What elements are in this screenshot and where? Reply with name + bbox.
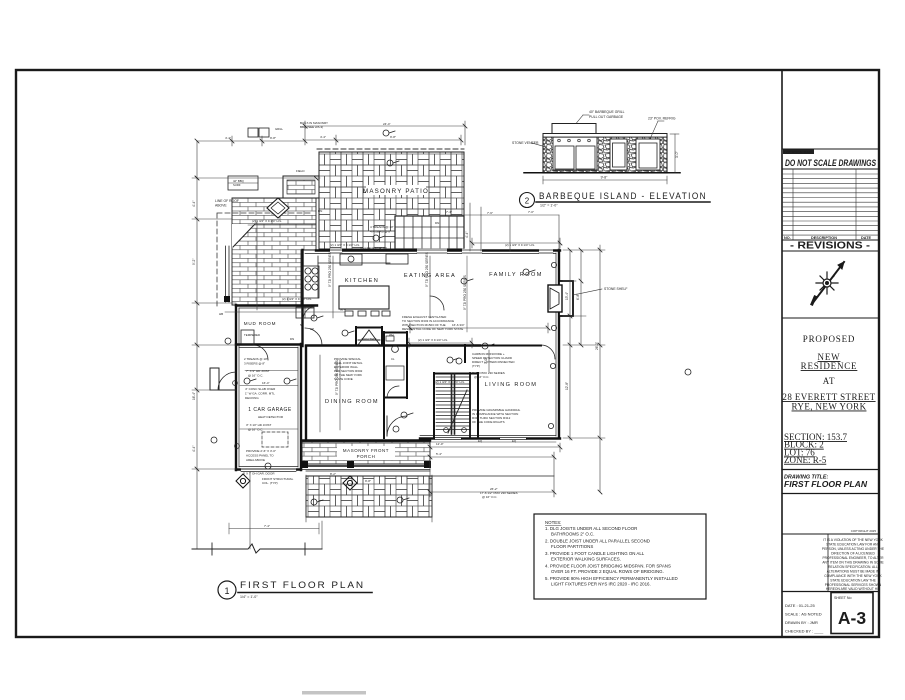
svg-text:1: 1 bbox=[224, 586, 229, 596]
svg-text:FIELD: FIELD bbox=[296, 169, 305, 173]
svg-text:DINING ROOM: DINING ROOM bbox=[325, 399, 379, 405]
svg-text:A-3: A-3 bbox=[838, 608, 866, 628]
svg-text:RESIDENCE: RESIDENCE bbox=[801, 361, 858, 371]
svg-text:7'-0": 7'-0" bbox=[528, 210, 534, 214]
svg-text:13'-4": 13'-4" bbox=[565, 292, 569, 300]
svg-text:12'-8": 12'-8" bbox=[565, 382, 569, 390]
svg-text:STONE SHELF: STONE SHELF bbox=[604, 287, 628, 291]
svg-text:9'-8": 9'-8" bbox=[390, 135, 396, 139]
svg-text:9'-8": 9'-8" bbox=[601, 176, 609, 180]
svg-text:IT IS A VIOLATION OF THE NEW Y: IT IS A VIOLATION OF THE NEW YORK bbox=[823, 538, 883, 542]
svg-text:NO.: NO. bbox=[784, 236, 791, 240]
svg-text:9' X 7' OH GAR. DOOR: 9' X 7' OH GAR. DOOR bbox=[243, 472, 275, 476]
svg-text:FAMILY ROOM: FAMILY ROOM bbox=[489, 272, 543, 278]
svg-text:4'-4": 4'-4" bbox=[192, 201, 196, 207]
svg-text:(2) 1 3/4" X 9 1/4" LVL: (2) 1 3/4" X 9 1/4" LVL bbox=[360, 246, 388, 250]
svg-text:(2) 1 3/4" X 9 1/4" LVL: (2) 1 3/4" X 9 1/4" LVL bbox=[435, 380, 465, 384]
svg-text:CHECKED BY : ____: CHECKED BY : ____ bbox=[785, 629, 824, 634]
svg-text:KITCHEN: KITCHEN bbox=[345, 278, 379, 284]
svg-text:4 TREADS @ 10": 4 TREADS @ 10" bbox=[370, 225, 394, 229]
svg-text:6'-8": 6'-8" bbox=[576, 294, 580, 300]
svg-text:26'-2": 26'-2" bbox=[490, 487, 498, 491]
svg-text:PROVIDE 2'-6" X 3'-0": PROVIDE 2'-6" X 3'-0" bbox=[246, 449, 276, 453]
svg-text:STATE EDUCATION LAW FOR ANY: STATE EDUCATION LAW FOR ANY bbox=[826, 543, 880, 547]
svg-text:1" W GA. CORR. MTL: 1" W GA. CORR. MTL bbox=[245, 392, 275, 396]
svg-text:24'-4": 24'-4" bbox=[383, 122, 391, 126]
svg-text:DIRECTION OF A LICENSED: DIRECTION OF A LICENSED bbox=[831, 552, 875, 556]
svg-text:SCALE : AS NOTED: SCALE : AS NOTED bbox=[785, 612, 822, 617]
svg-text:UP: UP bbox=[310, 327, 314, 331]
svg-text:9'-8": 9'-8" bbox=[270, 136, 276, 140]
svg-text:MASONRY FRONT: MASONRY FRONT bbox=[343, 448, 389, 453]
svg-text:5. PROVIDE 90% HIGH EFFICIENCY: 5. PROVIDE 90% HIGH EFFICIENCY PERMANENT… bbox=[545, 576, 678, 581]
svg-text:NOTES:: NOTES: bbox=[545, 520, 561, 525]
svg-text:9" TJI PRO 230 SERIES: 9" TJI PRO 230 SERIES bbox=[425, 252, 429, 287]
svg-text:AREA ABOVE: AREA ABOVE bbox=[246, 458, 265, 462]
svg-text:DESCRIPTION: DESCRIPTION bbox=[811, 236, 837, 240]
svg-text:PANTRY: PANTRY bbox=[361, 338, 377, 342]
svg-text:9'-2": 9'-2" bbox=[192, 259, 196, 265]
svg-text:1 CAR GARAGE: 1 CAR GARAGE bbox=[248, 407, 292, 413]
svg-text:EATING AREA: EATING AREA bbox=[404, 273, 456, 279]
svg-text:2. DOUBLE JOIST UNDER ALL PARA: 2. DOUBLE JOIST UNDER ALL PARALLEL SECON… bbox=[545, 539, 650, 544]
svg-text:3 RISERS @ 8": 3 RISERS @ 8" bbox=[244, 362, 265, 366]
svg-text:5'-4": 5'-4" bbox=[436, 452, 442, 456]
svg-text:FIRST FLOOR PLAN: FIRST FLOOR PLAN bbox=[784, 479, 868, 489]
svg-text:12'-0": 12'-0" bbox=[436, 442, 444, 446]
svg-text:LIGHT FIXTURES PER NYS IRC 202: LIGHT FIXTURES PER NYS IRC 2020 - IRC 20… bbox=[551, 582, 651, 587]
svg-text:16'-6 3/4": 16'-6 3/4" bbox=[452, 323, 465, 327]
svg-text:OF THE CODE RIGHTS: OF THE CODE RIGHTS bbox=[472, 420, 505, 424]
svg-text:(2) 1 3/4" X 9 1/4" LVL: (2) 1 3/4" X 9 1/4" LVL bbox=[505, 243, 535, 247]
svg-text:PROPOSED: PROPOSED bbox=[803, 334, 855, 344]
svg-text:LIVING ROOM: LIVING ROOM bbox=[485, 382, 538, 388]
svg-text:MUD ROOM: MUD ROOM bbox=[244, 321, 276, 326]
svg-text:28 EVERETT STREET: 28 EVERETT STREET bbox=[782, 392, 875, 402]
svg-text:16'-4": 16'-4" bbox=[192, 392, 196, 400]
svg-text:@ 16" O.C.: @ 16" O.C. bbox=[482, 495, 497, 499]
svg-text:36"R: 36"R bbox=[340, 308, 346, 312]
svg-text:7'-4": 7'-4" bbox=[446, 210, 452, 214]
svg-text:ABOVE: ABOVE bbox=[215, 204, 227, 208]
svg-text:RYE, NEW YORK: RYE, NEW YORK bbox=[792, 402, 867, 412]
svg-text:ZONE: R-5: ZONE: R-5 bbox=[784, 455, 827, 465]
svg-text:HEAT DETECTOR: HEAT DETECTOR bbox=[258, 415, 284, 419]
svg-text:COPYRIGHT 2025: COPYRIGHT 2025 bbox=[851, 529, 877, 533]
svg-text:4" CONC SLAB OVER: 4" CONC SLAB OVER bbox=[245, 387, 276, 391]
svg-text:PROFESSIONAL ENGINEER, TO ALTE: PROFESSIONAL ENGINEER, TO ALTER bbox=[822, 556, 884, 560]
svg-text:COMPLIANCE WITH THE NEW YORK: COMPLIANCE WITH THE NEW YORK bbox=[824, 574, 882, 578]
svg-text:STATE EDUCATION LAW THE: STATE EDUCATION LAW THE bbox=[830, 579, 876, 583]
svg-text:16'-4": 16'-4" bbox=[262, 381, 270, 385]
svg-text:9" TJI PRO 230 SERIES: 9" TJI PRO 230 SERIES bbox=[463, 275, 467, 310]
svg-text:(2) 1 3/4" X 9 1/4" LVL: (2) 1 3/4" X 9 1/4" LVL bbox=[252, 219, 282, 223]
svg-text:(2) 1 3/4" X 9 1/4" LVL: (2) 1 3/4" X 9 1/4" LVL bbox=[418, 338, 448, 342]
svg-text:4 RISERS @ 8": 4 RISERS @ 8" bbox=[370, 230, 391, 234]
svg-text:RELATION SPECIFICATION. ALL: RELATION SPECIFICATION. ALL bbox=[828, 565, 878, 569]
svg-text:HB: HB bbox=[219, 312, 223, 316]
svg-text:8'-2": 8'-2" bbox=[330, 472, 336, 476]
svg-text:LOCATION MAP: LOCATION MAP bbox=[784, 150, 812, 154]
svg-text:EXTERIOR WALKING SURFACES.: EXTERIOR WALKING SURFACES. bbox=[551, 557, 621, 562]
svg-text:5R: 5R bbox=[300, 323, 304, 327]
svg-text:- REVISIONS -: - REVISIONS - bbox=[790, 241, 870, 252]
svg-text:PULL OUT GARBAGE: PULL OUT GARBAGE bbox=[589, 115, 624, 119]
svg-text:9" TJI PRO 230 SERIES: 9" TJI PRO 230 SERIES bbox=[335, 360, 339, 395]
svg-text:(TYP): (TYP) bbox=[472, 364, 480, 368]
svg-text:(2) 1 3/4" X 9 1/4" LVL: (2) 1 3/4" X 9 1/4" LVL bbox=[330, 243, 360, 247]
svg-text:AT: AT bbox=[823, 376, 836, 386]
svg-text:WH: WH bbox=[389, 333, 394, 337]
svg-text:7" X 9" HD JOIST: 7" X 9" HD JOIST bbox=[246, 369, 270, 373]
svg-text:3'-0": 3'-0" bbox=[484, 358, 488, 364]
svg-text:4. PROVIDE FLOOR JOIST BRIDGIN: 4. PROVIDE FLOOR JOIST BRIDGING MIDSPAN.… bbox=[545, 564, 671, 569]
svg-text:9" TJI PRO 230 SERIES: 9" TJI PRO 230 SERIES bbox=[328, 252, 332, 287]
svg-text:LINE OF ROOF: LINE OF ROOF bbox=[215, 199, 239, 203]
svg-text:PERSON, UNLESS ACTING UNDER TH: PERSON, UNLESS ACTING UNDER THE bbox=[822, 547, 885, 551]
svg-text:FLOOR PARTITIONS: FLOOR PARTITIONS bbox=[551, 544, 593, 549]
svg-text:2 TREADS @ 10": 2 TREADS @ 10" bbox=[244, 357, 268, 361]
svg-text:9'-8": 9'-8" bbox=[365, 479, 371, 483]
svg-text:7'-6": 7'-6" bbox=[487, 211, 493, 215]
svg-text:26'-2": 26'-2" bbox=[595, 342, 599, 350]
svg-text:TEMPERED: TEMPERED bbox=[244, 333, 260, 337]
svg-text:RESIDENTIAL CODE OF NEW YORK S: RESIDENTIAL CODE OF NEW YORK STATE bbox=[402, 327, 463, 331]
svg-text:HEREON ARE VALID WITHOUT HIS: HEREON ARE VALID WITHOUT HIS bbox=[826, 587, 881, 591]
svg-text:FIRST FLOOR PLAN: FIRST FLOOR PLAN bbox=[240, 580, 365, 591]
svg-text:BATHROOMS 2" O.C.: BATHROOMS 2" O.C. bbox=[551, 532, 594, 537]
svg-text:DRAWN BY : JMR: DRAWN BY : JMR bbox=[785, 620, 818, 625]
svg-text:PORCH: PORCH bbox=[357, 454, 376, 459]
svg-text:1/2" = 1'-0": 1/2" = 1'-0" bbox=[540, 204, 558, 208]
svg-text:4'-4": 4'-4" bbox=[192, 446, 196, 452]
svg-text:DO NOT SCALE DRAWINGS: DO NOT SCALE DRAWINGS bbox=[785, 158, 876, 168]
svg-text:BARBEQUE ISLAND - ELEVATION: BARBEQUE ISLAND - ELEVATION bbox=[539, 191, 707, 202]
svg-text:OVER 16 FT. PROVIDE 2 EQUAL RO: OVER 16 FT. PROVIDE 2 EQUAL ROWS OF BRID… bbox=[551, 569, 664, 574]
svg-text:1. DLG JOISTS UNDER ALL SECOND: 1. DLG JOISTS UNDER ALL SECOND FLOOR bbox=[545, 526, 637, 531]
svg-text:3'-0": 3'-0" bbox=[675, 150, 679, 158]
svg-text:4'-4": 4'-4" bbox=[225, 136, 231, 140]
svg-text:MASONRY PATIO: MASONRY PATIO bbox=[363, 188, 429, 195]
svg-text:7'-4": 7'-4" bbox=[264, 524, 270, 528]
svg-text:4'-4": 4'-4" bbox=[320, 135, 326, 139]
svg-text:COL. (TYP): COL. (TYP) bbox=[262, 481, 278, 485]
svg-text:BBQ (SEE 2/A-3): BBQ (SEE 2/A-3) bbox=[300, 125, 323, 129]
svg-text:3. PROVIDE 1 FOOT CANDLE LIGHT: 3. PROVIDE 1 FOOT CANDLE LIGHTING ON ALL bbox=[545, 551, 645, 556]
svg-text:4'-4": 4'-4" bbox=[465, 232, 469, 238]
svg-text:STONE VENEER: STONE VENEER bbox=[512, 141, 539, 145]
svg-text:@ 16" O.C.: @ 16" O.C. bbox=[248, 374, 263, 378]
svg-text:SHEET No: SHEET No bbox=[834, 596, 852, 600]
svg-text:ANY ITEM ON THIS DRAWING IN SO: ANY ITEM ON THIS DRAWING IN SOME bbox=[822, 561, 884, 565]
svg-text:GRILL: GRILL bbox=[275, 127, 284, 131]
svg-text:DN: DN bbox=[435, 221, 439, 225]
svg-text:DECKING: DECKING bbox=[245, 396, 259, 400]
svg-text:@ 16" O.C.: @ 16" O.C. bbox=[474, 375, 489, 379]
svg-text:(2) 1 3/4" X 9 1/4" LVL: (2) 1 3/4" X 9 1/4" LVL bbox=[282, 297, 312, 301]
svg-text:DN: DN bbox=[318, 209, 322, 213]
svg-text:1/4" = 1'-0": 1/4" = 1'-0" bbox=[240, 595, 258, 599]
svg-text:SURF: SURF bbox=[233, 183, 241, 187]
svg-text:DATE : 01-21-25: DATE : 01-21-25 bbox=[785, 603, 815, 608]
svg-text:3" X 10" HD JOIST: 3" X 10" HD JOIST bbox=[246, 423, 271, 427]
svg-text:DATE: DATE bbox=[861, 236, 872, 240]
svg-text:DN: DN bbox=[290, 337, 294, 341]
svg-text:@ 16" O.C.: @ 16" O.C. bbox=[248, 428, 263, 432]
svg-text:23" POV. REFRIG: 23" POV. REFRIG bbox=[648, 117, 676, 121]
svg-text:ALTERATIONS MUST BE MADE IN: ALTERATIONS MUST BE MADE IN bbox=[827, 570, 880, 574]
svg-text:40" BARBEQUE GRILL: 40" BARBEQUE GRILL bbox=[589, 110, 625, 114]
svg-text:2: 2 bbox=[525, 197, 530, 206]
svg-text:CL: CL bbox=[391, 357, 395, 361]
svg-text:ACCESS PANEL TO: ACCESS PANEL TO bbox=[246, 454, 274, 458]
